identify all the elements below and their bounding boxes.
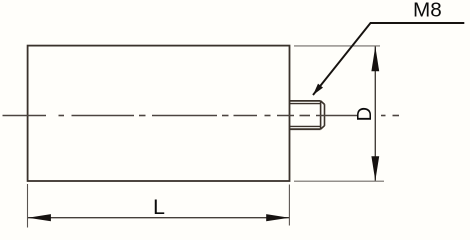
- svg-text:L: L: [153, 195, 165, 219]
- stud thread line top: [290, 103, 321, 105]
- M8 leader line: [313, 23, 464, 95]
- D dimension extension line top: [294, 45, 380, 47]
- D dimension extension line bottom: [294, 180, 384, 182]
- stud chamfer start vertical: [320, 101, 322, 129]
- L dimension extension line right: [288, 185, 290, 226]
- D arrow up: [371, 46, 379, 71]
- stud end face vertical: [324, 104, 326, 126]
- L dimension line: [28, 217, 289, 219]
- L arrow right: [266, 214, 289, 221]
- D arrow down: [371, 156, 379, 181]
- D dimension line: [374, 46, 376, 180]
- body outline (cylinder side view): [28, 46, 290, 181]
- stud chamfer diagonal bottom: [321, 126, 325, 130]
- M8 leader arrowhead: [313, 84, 323, 95]
- stud bottom outer line: [290, 128, 321, 130]
- stud thread line bottom: [290, 125, 321, 127]
- svg-text:M8: M8: [413, 0, 442, 21]
- centerline (dash-dot axis): [3, 115, 400, 117]
- L arrow left: [28, 214, 51, 221]
- stud chamfer diagonal top: [321, 101, 325, 105]
- stud top outer line: [290, 100, 321, 102]
- svg-text:D: D: [354, 107, 376, 121]
- L dimension extension line left: [27, 184, 29, 228]
